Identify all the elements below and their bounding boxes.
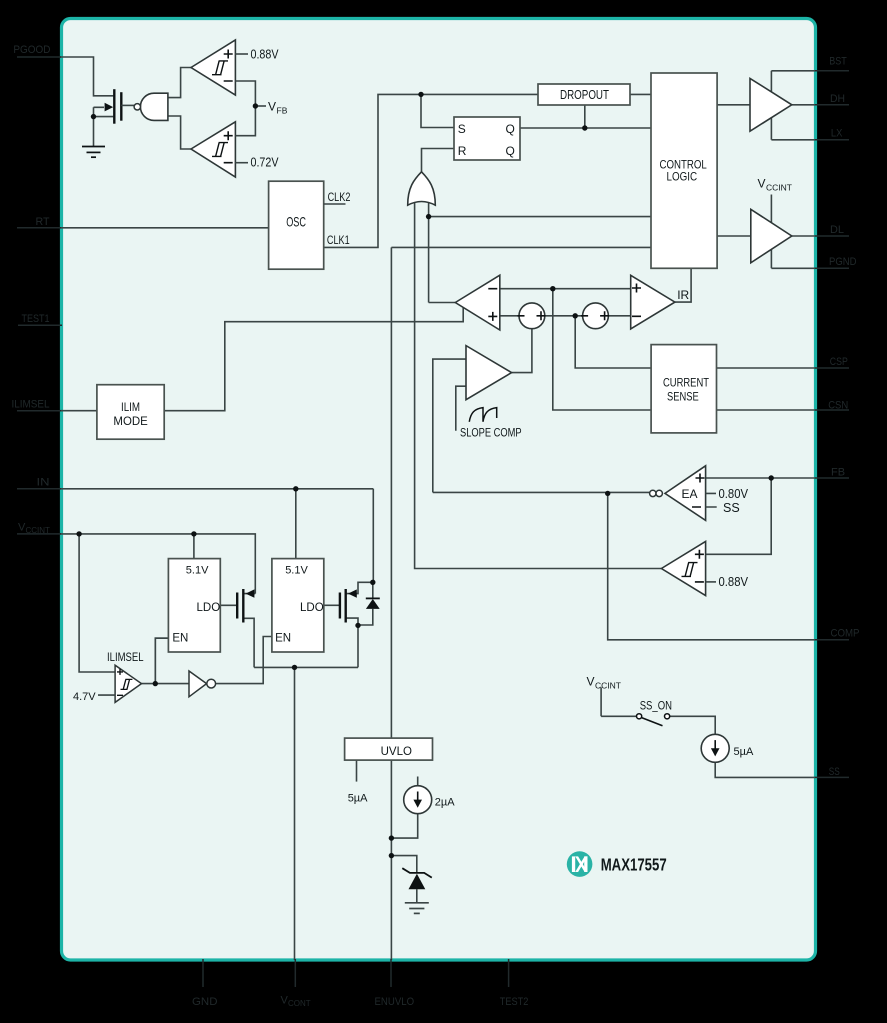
label SS_ON	[640, 701, 672, 713]
svg-text:V: V	[587, 675, 595, 689]
svg-text:EN: EN	[172, 632, 188, 644]
wire OR output right branch to control logic	[429, 202, 651, 303]
svg-text:TEST2: TEST2	[500, 996, 529, 1008]
pin GND	[192, 959, 218, 1008]
label VCCINT at SS_ON	[587, 675, 621, 691]
pin RT	[17, 216, 61, 228]
wire node to current sense lower left	[553, 289, 651, 410]
wire slope comp bottom input stub	[456, 386, 466, 431]
node junction Q3 source	[355, 623, 360, 628]
wire EN1 input	[155, 638, 168, 683]
pin IN	[17, 477, 61, 489]
label 0.88V lower	[719, 575, 749, 589]
ground under Q1	[82, 147, 105, 158]
svg-text:ILIMSEL: ILIMSEL	[107, 652, 144, 664]
node junction ILIMSEL out	[153, 681, 158, 686]
wire R input from OR gate	[422, 149, 455, 172]
pin PGND	[815, 256, 857, 268]
wire LDO1 output to gate	[220, 604, 237, 606]
summing junction 2	[581, 303, 609, 329]
svg-text:0.72V: 0.72V	[251, 156, 280, 170]
svg-text:LDO: LDO	[300, 602, 324, 614]
svg-text:ILIM: ILIM	[121, 402, 140, 414]
wire PWM comparator output	[429, 302, 456, 304]
wire EA noninverting input to FB	[706, 477, 815, 479]
label ILIMSEL comparator	[107, 652, 144, 664]
wire IN net	[60, 489, 373, 583]
pin LX	[815, 128, 849, 140]
svg-text:EA: EA	[682, 487, 698, 501]
diode D1 body diode	[358, 582, 380, 625]
block OSC	[269, 181, 324, 269]
svg-text:FB: FB	[277, 106, 288, 116]
svg-text:FB: FB	[831, 466, 845, 478]
svg-text:Q: Q	[506, 144, 515, 158]
current source 5uA soft start	[701, 734, 754, 762]
pin PGOOD	[13, 44, 61, 57]
driver DH U7	[750, 78, 792, 131]
wire DH driver input	[717, 104, 750, 106]
node junction 2uA-ENUVLO	[389, 835, 394, 840]
svg-text:COMP: COMP	[831, 628, 860, 640]
or gate U3	[408, 172, 436, 205]
wire node to current sense upper left	[575, 316, 651, 368]
current source 2uA	[404, 786, 456, 814]
label 0.88V	[251, 47, 280, 61]
wire Q output to control logic	[520, 127, 651, 129]
svg-text:0.80V: 0.80V	[719, 487, 749, 501]
svg-text:2µA: 2µA	[435, 796, 455, 808]
node junction VCCINT branch1	[76, 531, 81, 536]
node junction summer	[573, 313, 578, 318]
wire DL driver input	[717, 235, 751, 237]
svg-text:RT: RT	[36, 216, 50, 228]
svg-text:SENSE: SENSE	[667, 389, 699, 403]
wire mosfet source rail to VCONT	[254, 667, 358, 960]
node junction Q-dropout	[582, 125, 587, 130]
block CURRENT SENSE	[651, 345, 716, 433]
wire DL PGND driver bracket	[771, 236, 815, 268]
svg-text:V: V	[268, 100, 276, 114]
wire VCCINT stub to DL driver	[770, 195, 772, 225]
label SLOPE COMP	[460, 425, 522, 439]
wire zener branch	[391, 856, 416, 873]
label VCCINT above DL driver	[758, 177, 792, 193]
node junction IN branch	[293, 486, 298, 491]
pin VCONT	[281, 959, 311, 1008]
svg-text:S: S	[458, 122, 466, 136]
pin TEST2	[500, 959, 529, 1008]
label CLK1	[327, 235, 350, 247]
wire LDO2 output to gate	[324, 604, 339, 606]
pin DL	[815, 224, 849, 236]
wire COMP net horizontal to EA output	[433, 491, 650, 493]
node junction CLK1-S	[418, 92, 423, 97]
svg-text:PGND: PGND	[829, 256, 857, 268]
svg-text:CSN: CSN	[828, 400, 848, 412]
wire BST DH LX driver bracket	[771, 71, 815, 140]
zener diode D2	[402, 868, 432, 889]
wire slope comp output to summer1	[512, 329, 532, 373]
wire schmitt comparator output to OR gate	[415, 202, 662, 569]
wire DROPOUT output	[630, 93, 651, 95]
pin ENUVLO	[375, 959, 415, 1008]
svg-text:BST: BST	[829, 55, 847, 67]
wire DROPOUT to Q node	[584, 105, 586, 128]
svg-text:5µA: 5µA	[734, 746, 754, 758]
block CONTROL LOGIC	[651, 73, 717, 268]
node junction EA output COMP	[605, 491, 610, 496]
wire UVLO 5uA stub	[356, 760, 358, 782]
transistor Q2	[237, 589, 255, 667]
svg-text:ENUVLO: ENUVLO	[375, 996, 415, 1008]
svg-text:CURRENT: CURRENT	[663, 375, 710, 389]
svg-text:5.1V: 5.1V	[285, 564, 308, 576]
wire slope comp top input from COMP net	[433, 359, 466, 492]
node junction IN-diode	[370, 580, 375, 585]
wire PWM inverting input to IR amp	[500, 288, 631, 290]
block UVLO	[345, 738, 433, 760]
svg-text:MAX17557: MAX17557	[601, 855, 667, 875]
wire CLK1 to DROPOUT and S	[324, 94, 538, 247]
svg-text:IR: IR	[677, 288, 689, 302]
transistor Q1 pgood pulldown	[91, 89, 134, 146]
pin VCCINT left	[17, 522, 61, 536]
comparator ILIMSEL U11	[98, 665, 142, 702]
comparator 0.88V upper	[191, 40, 255, 106]
label 5uA left	[348, 793, 368, 805]
wire COMP pin net	[608, 493, 815, 639]
block ILIM MODE	[97, 385, 164, 440]
transistor Q3	[340, 582, 373, 667]
svg-text:GND: GND	[192, 996, 218, 1008]
pin BST	[815, 55, 849, 70]
wire summer2 to IR amp inverting input	[608, 315, 630, 317]
wire VCCINT net	[60, 534, 255, 672]
svg-text:IN: IN	[37, 477, 50, 489]
summing junction 1	[518, 303, 546, 329]
wire SS_ON switch net	[601, 687, 715, 734]
node junction FB	[769, 475, 774, 480]
svg-text:CCINT: CCINT	[26, 526, 51, 535]
wire ILIMSEL comparator output	[142, 638, 190, 683]
label 4.7V	[73, 691, 96, 703]
label 0.80V	[719, 487, 749, 501]
pin ILIMSEL	[12, 398, 62, 410]
svg-text:LX: LX	[831, 128, 843, 140]
block LDO1	[168, 559, 220, 652]
inverter U12	[189, 671, 216, 697]
block DROPOUT	[538, 84, 630, 105]
pin SS	[815, 766, 849, 778]
svg-text:CLK1: CLK1	[327, 235, 350, 247]
svg-text:TEST1: TEST1	[22, 313, 50, 325]
svg-text:CONT: CONT	[288, 999, 311, 1008]
wire 5uA source to SS pin	[715, 762, 815, 777]
pin CSN	[815, 400, 849, 412]
svg-text:UVLO: UVLO	[381, 746, 412, 758]
svg-text:DL: DL	[830, 224, 844, 236]
svg-text:SLOPE COMP: SLOPE COMP	[460, 425, 522, 439]
amplifier slope comp U6	[466, 346, 512, 400]
amplifier IR	[631, 275, 690, 329]
driver DL U8	[751, 209, 792, 262]
pin CSP	[815, 356, 849, 368]
svg-text:SS: SS	[723, 501, 740, 515]
svg-text:EN: EN	[275, 632, 291, 644]
svg-text:V: V	[758, 177, 766, 191]
comparator 0.72V lower	[191, 106, 255, 177]
node junction OR input to control logic	[426, 214, 431, 219]
svg-text:CCINT: CCINT	[595, 681, 621, 691]
svg-text:0.88V: 0.88V	[251, 47, 280, 61]
wire 2uA source to ENUVLO	[391, 777, 417, 839]
node VFB	[253, 100, 288, 116]
pin DH	[815, 93, 849, 105]
svg-text:DH: DH	[830, 93, 845, 105]
wire PGOOD net	[60, 57, 113, 96]
svg-text:5µA: 5µA	[348, 793, 368, 805]
svg-text:CLK2: CLK2	[328, 192, 351, 204]
svg-text:OSC: OSC	[286, 213, 306, 229]
svg-text:MODE: MODE	[113, 416, 148, 428]
comparator schmitt 0.88V U10	[661, 541, 716, 595]
pin COMP	[815, 628, 860, 640]
symbol sawtooth	[469, 408, 496, 422]
node junction PWM inverting	[550, 286, 555, 291]
label CLK2 with stub	[324, 192, 351, 204]
wire IR amp output to control logic	[675, 268, 691, 302]
pin FB	[815, 466, 849, 478]
wire inverter output to EN2	[216, 637, 272, 684]
wire RT to OSC	[60, 227, 269, 229]
node junction VCONT rail	[292, 665, 297, 670]
svg-text:SS: SS	[829, 766, 840, 778]
nand gate U2	[134, 68, 191, 150]
block LDO2	[272, 559, 324, 652]
svg-text:LOGIC: LOGIC	[667, 169, 698, 183]
main block boundary	[62, 19, 816, 961]
error amp EA U9	[650, 466, 717, 521]
label 0.72V	[251, 156, 280, 170]
node junction VCCINT branch2	[191, 531, 196, 536]
wire zener to ground	[416, 889, 418, 903]
ground under zener	[405, 903, 429, 914]
wire CSN output	[717, 409, 816, 411]
block SR latch	[454, 117, 520, 160]
pin TEST1	[18, 313, 62, 325]
svg-text:4.7V: 4.7V	[73, 691, 96, 703]
comparator PWM U4	[455, 275, 500, 330]
svg-text:PGOOD: PGOOD	[13, 44, 50, 56]
wire PWM noninverting input from summer	[500, 315, 519, 317]
wire ILIM MODE output to PWM comparator	[164, 308, 463, 411]
wire ILIM MODE input	[60, 410, 97, 412]
wire between summing junctions	[545, 315, 583, 317]
svg-text:ILIMSEL: ILIMSEL	[12, 398, 50, 410]
wire FB node down to schmitt comparator	[706, 478, 772, 554]
svg-text:SS_ON: SS_ON	[640, 701, 672, 713]
svg-text:CSP: CSP	[830, 356, 848, 368]
switch SS_ON	[637, 714, 670, 726]
svg-text:CCINT: CCINT	[766, 183, 792, 193]
label SS ref	[723, 501, 740, 515]
svg-text:Q: Q	[506, 122, 515, 136]
svg-text:R: R	[458, 144, 467, 158]
svg-text:5.1V: 5.1V	[186, 564, 209, 576]
wire CSP output	[717, 367, 816, 369]
node junction zener-ENUVLO	[389, 853, 394, 858]
wire S input	[421, 94, 454, 127]
svg-text:0.88V: 0.88V	[719, 575, 749, 589]
svg-text:DROPOUT: DROPOUT	[560, 88, 609, 102]
wire ENUVLO net	[391, 247, 651, 960]
label MAX17557	[601, 855, 667, 875]
svg-text:LDO: LDO	[197, 602, 221, 614]
logo maxim	[567, 851, 593, 877]
